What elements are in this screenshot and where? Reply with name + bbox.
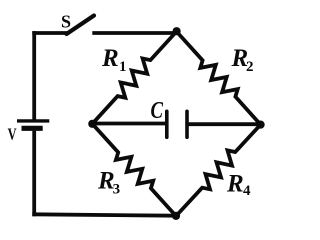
- svg-text:R: R: [101, 45, 119, 72]
- node top junction dot: [173, 27, 181, 35]
- wire: capacitor right plate to right node: [187, 122, 261, 126]
- wire: switch to top node: [92, 31, 176, 35]
- resistor R1: [92, 32, 176, 124]
- svg-text:3: 3: [113, 182, 121, 198]
- resistor R4: [176, 125, 261, 216]
- capacitor C right plate: [185, 111, 189, 137]
- switch S blade: [67, 16, 95, 35]
- node right junction dot: [257, 121, 265, 129]
- resistor R3: [92, 124, 176, 216]
- svg-text:R: R: [226, 171, 244, 198]
- node left junction dot: [88, 120, 96, 128]
- battery V: short thick plate (-): [22, 126, 43, 131]
- svg-text:C: C: [151, 97, 164, 124]
- svg-text:2: 2: [246, 59, 254, 75]
- svg-text:S: S: [61, 11, 71, 31]
- node bottom junction dot: [172, 212, 180, 220]
- wire: top-left horizontal (corner to switch pivot): [32, 31, 67, 35]
- label R2: [231, 45, 254, 75]
- label R3: [97, 168, 120, 198]
- label R1: [101, 45, 127, 75]
- wire: left node to capacitor left plate: [92, 122, 167, 126]
- svg-text:4: 4: [243, 183, 251, 199]
- svg-text:V: V: [8, 126, 17, 144]
- wire: left vertical upper (top-left corner down to battery): [32, 31, 36, 121]
- resistor R2: [177, 32, 261, 125]
- svg-text:1: 1: [119, 59, 127, 75]
- battery V: long thin plate (+): [17, 119, 49, 122]
- capacitor C left plate: [165, 111, 169, 137]
- label R4: [226, 171, 251, 200]
- wire: left vertical lower (battery down to bottom-left corner): [32, 131, 36, 217]
- wire: bottom horizontal (corner to bottom node): [32, 214, 176, 215]
